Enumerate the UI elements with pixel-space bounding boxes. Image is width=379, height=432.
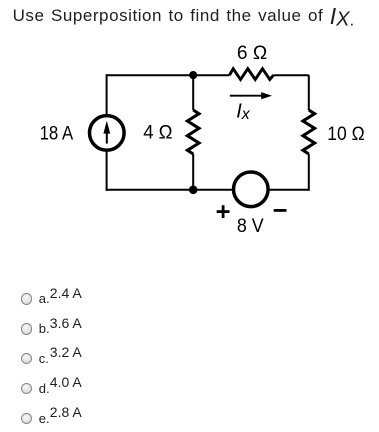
question title <box>13 3 355 26</box>
node junction top <box>189 71 197 79</box>
current Ix arrow shaft <box>230 95 263 97</box>
polarity plus sign <box>217 205 230 218</box>
wire top-right segment <box>274 74 309 76</box>
svg-text:Ix: Ix <box>236 101 251 123</box>
wire top-left segment <box>107 74 230 76</box>
svg-text:4 Ω: 4 Ω <box>143 123 172 144</box>
current Ix arrowhead <box>261 92 272 99</box>
svg-text:10 Ω: 10 Ω <box>327 124 364 145</box>
node junction bottom <box>189 186 198 195</box>
current source arrowhead <box>103 121 110 134</box>
answer option a <box>21 293 32 304</box>
wire bottom-right segment <box>268 189 309 191</box>
resistor R 6ohm (horizontal zigzag) <box>230 69 274 80</box>
resistor R 10ohm (right vertical zigzag) <box>303 110 315 154</box>
answer option b <box>21 323 32 334</box>
wire left branch upper <box>106 74 108 115</box>
current source arrow shaft <box>106 128 108 144</box>
polarity minus sign <box>274 209 287 212</box>
svg-text:18 A: 18 A <box>40 123 74 144</box>
answer option c <box>21 353 32 364</box>
wire bottom-left segment <box>106 189 234 191</box>
voltage source V1 8V circle <box>234 172 269 207</box>
wire middle branch lower <box>192 154 194 190</box>
wire right branch upper <box>308 75 310 110</box>
svg-text:8 V: 8 V <box>237 216 264 237</box>
svg-text:6 Ω: 6 Ω <box>237 43 267 64</box>
answer option e <box>21 413 32 424</box>
current source I1 18A circle <box>90 116 125 151</box>
answer option d <box>21 383 32 394</box>
wire left branch lower <box>106 150 108 191</box>
wire middle branch upper <box>192 75 194 110</box>
wire right branch lower <box>308 154 310 191</box>
resistor R 4ohm (middle vertical zigzag) <box>187 110 199 154</box>
